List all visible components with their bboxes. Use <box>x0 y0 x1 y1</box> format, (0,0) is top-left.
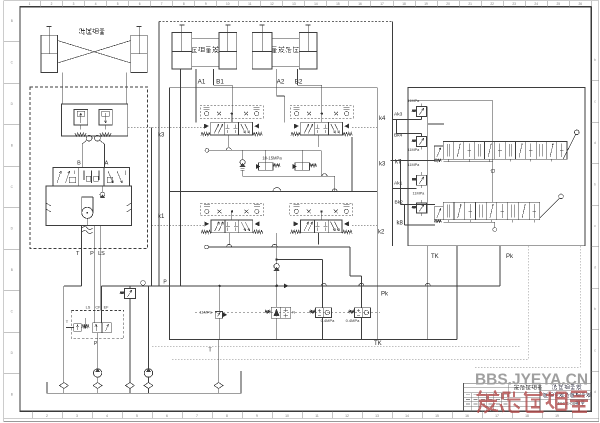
svg-text:9: 9 <box>256 414 258 418</box>
wire B2 <box>297 69 299 85</box>
svg-text:11MPa: 11MPa <box>408 99 421 103</box>
svg-text:6: 6 <box>139 2 141 6</box>
svg-text:0.4MPa: 0.4MPa <box>346 318 361 323</box>
svg-text:TK: TK <box>374 341 382 347</box>
svg-text:2: 2 <box>51 2 53 6</box>
centre bottom stub <box>318 233 320 245</box>
centre bottom stub <box>228 135 230 147</box>
left cell arrows <box>214 124 219 133</box>
svg-text:b: b <box>594 307 596 311</box>
pilot pump <box>144 369 152 377</box>
right block frame <box>408 88 585 246</box>
svg-text:17: 17 <box>495 414 499 418</box>
top ruler band <box>40 1 42 7</box>
overload valve block frame <box>61 104 127 136</box>
pilot reducing valve 4 <box>417 203 427 213</box>
svg-text:22: 22 <box>490 2 494 6</box>
svg-text:Ak3: Ak3 <box>394 112 403 118</box>
inner divider line with hop <box>170 191 378 193</box>
k4 dotted pilot wire <box>352 126 377 128</box>
pilot reducing valve 2 <box>417 137 427 147</box>
collector line <box>47 392 241 394</box>
pilot reducing valve 1 <box>417 107 427 117</box>
centre feed stub <box>321 114 323 123</box>
centre cell blocked ports <box>227 222 229 226</box>
svg-text:11MPa: 11MPa <box>200 310 213 315</box>
svg-text:14: 14 <box>314 2 318 6</box>
right cell arrows <box>241 222 246 231</box>
pilot check caps <box>204 107 210 109</box>
svg-text:5: 5 <box>136 414 138 418</box>
P line right arrow <box>284 284 288 288</box>
centre feed stub <box>231 211 233 220</box>
svg-text:EF: EF <box>104 306 110 310</box>
solenoid triangles <box>205 222 209 226</box>
svg-text:k8: k8 <box>397 221 404 227</box>
svg-text:12: 12 <box>270 2 274 6</box>
pilot circles and cross <box>205 112 209 116</box>
svg-text:26: 26 <box>578 2 582 6</box>
solenoid triangles <box>204 124 208 128</box>
svg-text:1: 1 <box>29 2 31 6</box>
right cells rules <box>540 390 591 392</box>
watermark red forum name (zh) <box>477 391 500 413</box>
svg-text:B: B <box>11 143 13 147</box>
svg-text:k3: k3 <box>158 133 165 139</box>
overload valve 1 <box>74 110 88 126</box>
svg-text:CP: CP <box>95 306 101 310</box>
svg-text:A1: A1 <box>198 78 206 85</box>
pilot circles and cross <box>295 112 299 116</box>
pilot valve 0.4MPa No1 <box>316 308 332 318</box>
pilot head dashed box <box>290 106 353 118</box>
gerotor metering circle <box>82 207 93 218</box>
left ruler band <box>4 41 20 43</box>
centre cell blocked ports <box>316 222 318 226</box>
svg-text:20: 20 <box>446 2 450 6</box>
svg-text:7: 7 <box>161 2 163 6</box>
svg-text:k2: k2 <box>378 230 385 236</box>
Pk relief valve to tank <box>129 286 131 289</box>
svg-text:6: 6 <box>166 414 168 418</box>
Pk riser to right block <box>499 246 501 286</box>
springs <box>291 230 301 233</box>
svg-text:19: 19 <box>555 414 559 418</box>
pilot head dashed box <box>200 204 263 216</box>
row2 drain line <box>205 245 209 249</box>
svg-text:17: 17 <box>380 2 384 6</box>
svg-text:14: 14 <box>405 414 409 418</box>
LS junction dot <box>84 327 86 329</box>
main valve outer box <box>159 21 393 23</box>
svg-text:19: 19 <box>424 2 428 6</box>
check valve in housing <box>100 192 105 197</box>
main control valve body 3-pos <box>211 220 253 233</box>
inner valve box <box>170 88 378 340</box>
centre cell blocked ports <box>317 124 319 128</box>
row2 transfer line <box>277 259 323 261</box>
centre bottom stub <box>318 135 320 147</box>
wire A1 <box>195 69 197 122</box>
pilot reducing valve 3 <box>417 175 427 185</box>
pilot circles and cross <box>294 209 298 213</box>
steering valve spool box <box>53 168 130 186</box>
centre bottom stub <box>228 233 230 245</box>
svg-text:k1: k1 <box>158 214 165 220</box>
pilot circles and cross <box>205 209 209 213</box>
svg-text:3: 3 <box>76 414 78 418</box>
svg-text:4: 4 <box>95 2 97 6</box>
svg-text:LS: LS <box>86 306 91 310</box>
accumulator charge valve <box>271 307 291 318</box>
cross link wires <box>58 41 131 64</box>
inlet section <box>434 207 443 220</box>
gauge circle on P line <box>141 281 146 286</box>
relief valve in priority box <box>74 324 82 332</box>
pilot head dashed box <box>200 106 263 118</box>
svg-text:BBS.JYEYA.CN: BBS.JYEYA.CN <box>475 371 588 388</box>
svg-text:16: 16 <box>358 2 362 6</box>
dashed line through pilot valves <box>195 312 380 314</box>
svg-text:10-15MPa: 10-15MPa <box>262 156 282 161</box>
svg-text:15: 15 <box>435 414 439 418</box>
drain line row1 <box>205 148 209 152</box>
svg-text:13: 13 <box>292 2 296 6</box>
svg-text:11: 11 <box>315 414 319 418</box>
svg-text:8: 8 <box>183 2 185 6</box>
A1 work line loop <box>179 69 181 286</box>
right cell arrows <box>241 124 246 133</box>
pilot check caps <box>204 205 210 207</box>
centre cell blocked ports <box>227 124 229 128</box>
main control valve body 3-pos <box>301 220 343 233</box>
left cell arrows <box>215 222 220 231</box>
springs <box>201 132 211 135</box>
Pk pressure line <box>102 285 501 287</box>
svg-text:4: 4 <box>106 414 108 418</box>
k pilot dotted wires <box>128 126 205 128</box>
tiny row labels in table <box>466 394 470 396</box>
wire right cyl down <box>125 73 127 104</box>
svg-text:13: 13 <box>375 414 379 418</box>
svg-text:Pk: Pk <box>381 292 389 298</box>
title text schematic name (zh) <box>514 385 519 390</box>
check valve below V1 <box>242 150 244 159</box>
svg-text:d: d <box>594 141 596 145</box>
wire left cyl down <box>61 73 63 104</box>
svg-text:9: 9 <box>205 2 207 6</box>
right ruler band <box>598 1 600 419</box>
svg-text:b: b <box>594 183 596 187</box>
check valve column <box>276 233 278 264</box>
spool mid cell ports <box>83 171 85 181</box>
svg-text:11MPa: 11MPa <box>413 192 426 196</box>
svg-text:B: B <box>11 19 13 23</box>
right cell arrows <box>331 124 336 133</box>
svg-text:21: 21 <box>468 2 472 6</box>
drain wire <box>129 299 131 383</box>
dashed box steering system <box>30 87 148 249</box>
steering housing <box>46 186 132 225</box>
lever upper <box>563 134 576 159</box>
main pump <box>93 369 101 377</box>
svg-text:k3: k3 <box>379 162 386 168</box>
wires T P LS below steering unit <box>81 225 83 286</box>
shuttle ports circles <box>86 135 92 141</box>
title block table <box>464 383 592 411</box>
spool arrows right cell <box>108 171 113 183</box>
wire A2 <box>276 69 278 96</box>
svg-text:B: B <box>77 161 81 167</box>
svg-text:k4: k4 <box>379 116 386 122</box>
springs <box>201 230 211 233</box>
svg-text:N: N <box>292 310 295 314</box>
relief feeds <box>265 150 267 163</box>
svg-text:B2: B2 <box>295 78 303 85</box>
svg-text:A2: A2 <box>277 78 285 85</box>
svg-text:d: d <box>594 266 596 270</box>
strip tie lines <box>443 161 493 163</box>
corridor wires <box>393 119 422 121</box>
pilot check caps <box>294 107 300 109</box>
check valve to P <box>275 258 277 260</box>
bottom ruler band <box>4 417 599 419</box>
svg-text:P: P <box>90 251 94 257</box>
k2 dotted pilot wire <box>352 224 377 226</box>
steering cylinder right <box>131 35 148 72</box>
svg-text:23: 23 <box>512 2 516 6</box>
right cell arrows <box>331 222 336 231</box>
svg-text:A: A <box>105 161 109 167</box>
svg-text:B1: B1 <box>216 78 224 85</box>
svg-text:10: 10 <box>285 414 289 418</box>
svg-text:11MPa: 11MPa <box>408 163 421 167</box>
lever lower <box>540 198 560 218</box>
T return wire left <box>64 285 82 287</box>
main control valve body 3-pos <box>301 122 343 135</box>
pilot check caps <box>293 205 299 207</box>
svg-text:Pk: Pk <box>506 254 514 260</box>
svg-text:25: 25 <box>556 2 560 6</box>
pilot head dashed box <box>290 204 353 216</box>
wire B1 <box>213 69 215 85</box>
svg-text:24: 24 <box>534 2 538 6</box>
A2 work line stub <box>351 137 353 192</box>
left cell arrows <box>304 124 309 133</box>
svg-text:18: 18 <box>525 414 529 418</box>
svg-text:7: 7 <box>196 414 198 418</box>
svg-text:d: d <box>594 390 596 394</box>
svg-text:11: 11 <box>248 2 252 6</box>
centre feed stub <box>231 114 233 123</box>
priority EF out wire <box>101 286 103 323</box>
svg-text:12: 12 <box>345 414 349 418</box>
flexible drive shaft <box>82 227 93 230</box>
left cell arrows <box>304 222 309 231</box>
cylinder pair <box>252 33 272 69</box>
svg-text:TK: TK <box>431 254 439 260</box>
pilot valve 0.4MPa No2 <box>355 308 371 318</box>
relief 10-15MPa No2 <box>295 163 310 170</box>
svg-text:2: 2 <box>46 414 48 418</box>
svg-text:3: 3 <box>73 2 75 6</box>
spool arrows left cell <box>57 171 61 183</box>
dashed box priority valve <box>71 311 124 339</box>
svg-text:8: 8 <box>226 414 228 418</box>
TK line bottom <box>170 339 458 341</box>
wires to steering valve B/A <box>82 141 86 145</box>
svg-text:B: B <box>11 392 13 396</box>
drain line mid <box>243 175 335 177</box>
dashed pilot enclosure lines <box>152 346 521 348</box>
svg-text:10: 10 <box>226 2 230 6</box>
springs <box>291 132 301 135</box>
svg-text:b: b <box>594 58 596 62</box>
inlet section <box>434 146 443 159</box>
solenoid triangles <box>294 222 298 226</box>
priority valve body <box>93 323 112 333</box>
internal feed lines <box>408 100 493 102</box>
centre feed stub <box>320 211 322 220</box>
svg-text:18: 18 <box>402 2 406 6</box>
tank symbols <box>59 383 68 389</box>
label steering cylinders (zh) <box>79 28 85 34</box>
cylinder pair <box>172 33 192 69</box>
svg-text:16: 16 <box>465 414 469 418</box>
port circles <box>491 169 495 173</box>
V4 feed path <box>349 247 351 276</box>
tank under T line <box>214 383 223 389</box>
svg-text:5: 5 <box>117 2 119 6</box>
svg-text:11MPa: 11MPa <box>408 148 421 152</box>
right cell texts (zh) <box>552 385 557 390</box>
svg-text:B: B <box>11 268 13 272</box>
solenoid triangles <box>294 124 298 128</box>
main control valve body 3-pos <box>211 122 253 135</box>
svg-text:LS: LS <box>98 251 105 257</box>
overload valve 2 <box>99 110 112 126</box>
housing side ticks <box>46 203 51 206</box>
steering cylinder left <box>41 35 58 72</box>
svg-text:15: 15 <box>336 2 340 6</box>
svg-text:Ak1: Ak1 <box>394 181 403 187</box>
